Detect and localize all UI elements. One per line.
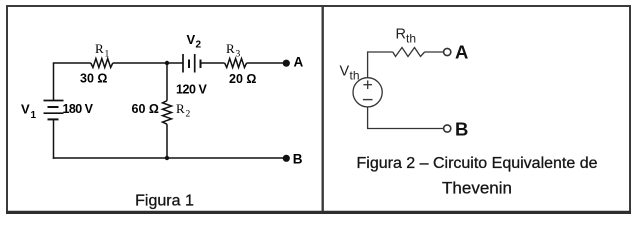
label R2 (176, 101, 191, 120)
svg-text:th: th (406, 32, 416, 46)
label V1 (21, 102, 37, 122)
wire Rth to terminal A (425, 51, 444, 53)
svg-text:Figura 2 – Circuito Equivalent: Figura 2 – Circuito Equivalente de (356, 155, 597, 172)
wire left vertical bottom (V1 to bottom rail) (53, 119, 55, 158)
battery V1 (44, 101, 64, 120)
svg-text:B: B (293, 152, 303, 167)
svg-text:1: 1 (105, 50, 110, 60)
svg-text:30 Ω: 30 Ω (80, 72, 107, 86)
wire Vth to top rail (right panel) (367, 52, 369, 78)
source Vth (353, 78, 382, 107)
svg-text:th: th (350, 69, 360, 83)
svg-text:2: 2 (196, 40, 202, 51)
label Vth (340, 64, 360, 83)
wire middle vertical bottom (R2 to bottom rail) (166, 124, 168, 158)
terminal A open circle (444, 48, 451, 55)
wire R1 to middle junction (113, 62, 167, 64)
wire bottom rail to terminal B (367, 128, 443, 130)
svg-text:60 Ω: 60 Ω (132, 102, 159, 116)
svg-text:2: 2 (186, 110, 191, 120)
svg-text:R: R (95, 41, 104, 56)
wire junction to V2 (167, 62, 183, 64)
svg-text:V: V (340, 64, 350, 80)
svg-text:Figura 1: Figura 1 (135, 192, 194, 209)
svg-text:Thevenin: Thevenin (442, 178, 512, 197)
label Rth (396, 27, 417, 46)
svg-text:R: R (396, 27, 406, 43)
svg-text:V: V (21, 102, 30, 117)
svg-text:A: A (455, 42, 468, 63)
node junction top (middle) (165, 61, 169, 65)
label V2 (187, 32, 202, 51)
node junction bottom (middle) (165, 156, 169, 160)
svg-text:R: R (176, 101, 185, 116)
svg-text:3: 3 (236, 50, 241, 60)
svg-text:V: V (187, 32, 196, 47)
wire R3 to node A (247, 62, 284, 64)
wire Vth to bottom rail (367, 107, 369, 129)
svg-text:180 V: 180 V (63, 102, 94, 116)
wire V2 to R3 (201, 62, 225, 64)
wire middle vertical top (junction to R2) (166, 63, 168, 101)
label R1 (95, 41, 110, 60)
svg-text:20 Ω: 20 Ω (229, 72, 256, 86)
wire top rail to Rth (367, 51, 393, 53)
wire bottom rail (53, 157, 284, 159)
resistor Rth (393, 48, 425, 57)
svg-text:B: B (455, 118, 468, 139)
battery V2 (183, 54, 201, 73)
svg-text:120 V: 120 V (176, 83, 208, 97)
svg-text:1: 1 (31, 110, 37, 121)
terminal B open circle (444, 125, 451, 132)
svg-text:R: R (226, 41, 235, 56)
node A terminal dot (283, 60, 290, 67)
wire top rail left segment (53, 62, 91, 64)
resistor R1 (91, 59, 113, 68)
resistor R3 (225, 59, 247, 68)
node B terminal dot (283, 155, 290, 162)
resistor R2 (163, 101, 172, 124)
wire left vertical top (V1 to top rail) (53, 63, 55, 101)
svg-text:A: A (294, 55, 304, 70)
label R3 (226, 41, 241, 60)
